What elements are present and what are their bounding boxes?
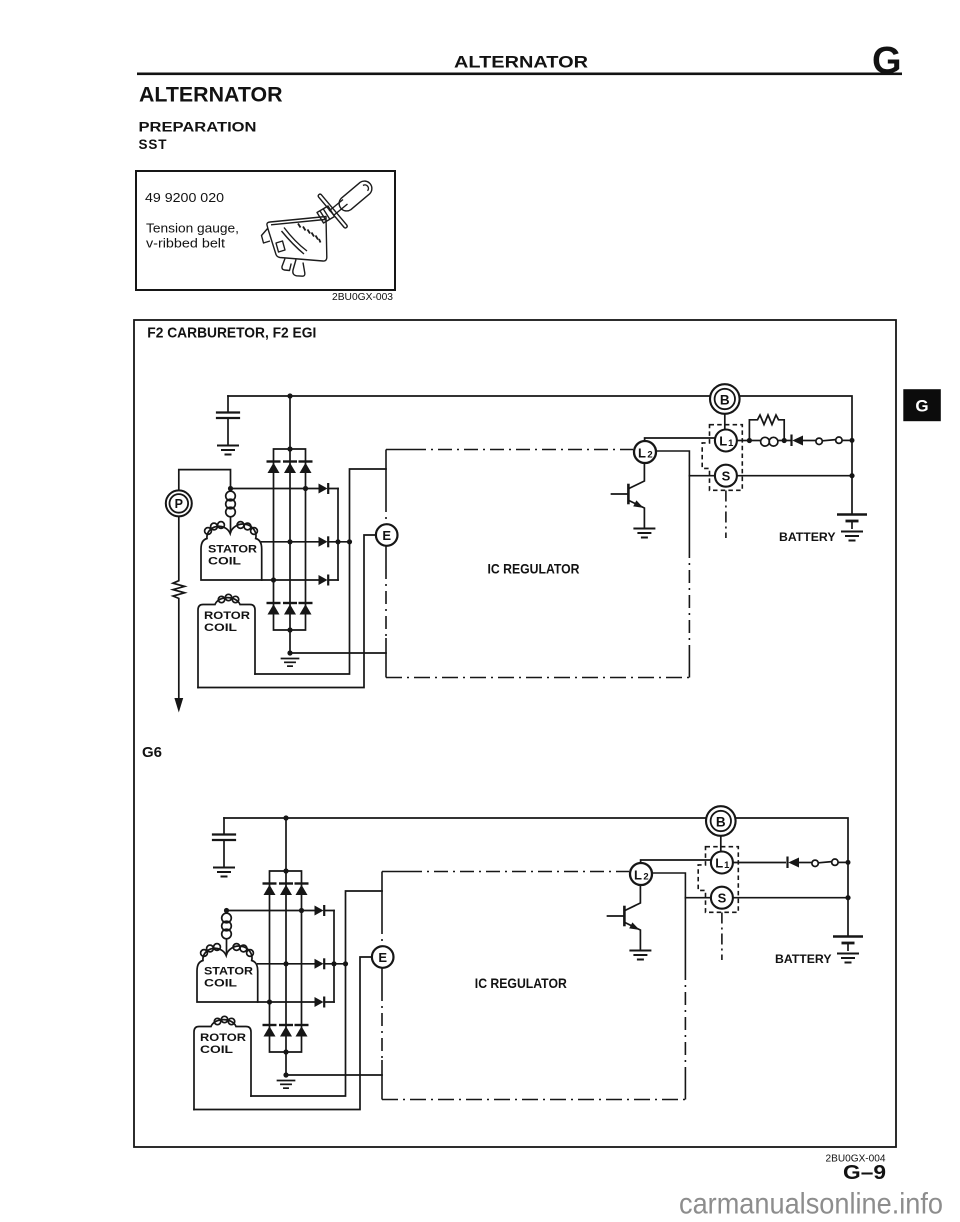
svg-text:G: G: [915, 397, 928, 416]
svg-text:ALTERNATOR: ALTERNATOR: [139, 84, 283, 107]
svg-text:ALTERNATOR: ALTERNATOR: [454, 53, 588, 72]
svg-text:G–9: G–9: [843, 1162, 886, 1184]
svg-text:carmanualsonline.info: carmanualsonline.info: [679, 1188, 943, 1221]
svg-text:SST: SST: [139, 137, 168, 152]
svg-text:PREPARATION: PREPARATION: [139, 119, 257, 134]
svg-text:v-ribbed belt: v-ribbed belt: [146, 237, 226, 251]
svg-text:49 9200 020: 49 9200 020: [145, 190, 224, 205]
svg-text:F2 CARBURETOR, F2 EGI: F2 CARBURETOR, F2 EGI: [147, 325, 316, 342]
svg-text:2BU0GX-003: 2BU0GX-003: [332, 292, 393, 303]
svg-text:P: P: [175, 497, 183, 511]
svg-text:IC REGULATOR: IC REGULATOR: [475, 975, 567, 991]
svg-text:G: G: [872, 40, 902, 82]
svg-text:IC REGULATOR: IC REGULATOR: [488, 561, 580, 577]
svg-text:Tension gauge,: Tension gauge,: [146, 222, 239, 236]
svg-text:G6: G6: [142, 744, 162, 761]
